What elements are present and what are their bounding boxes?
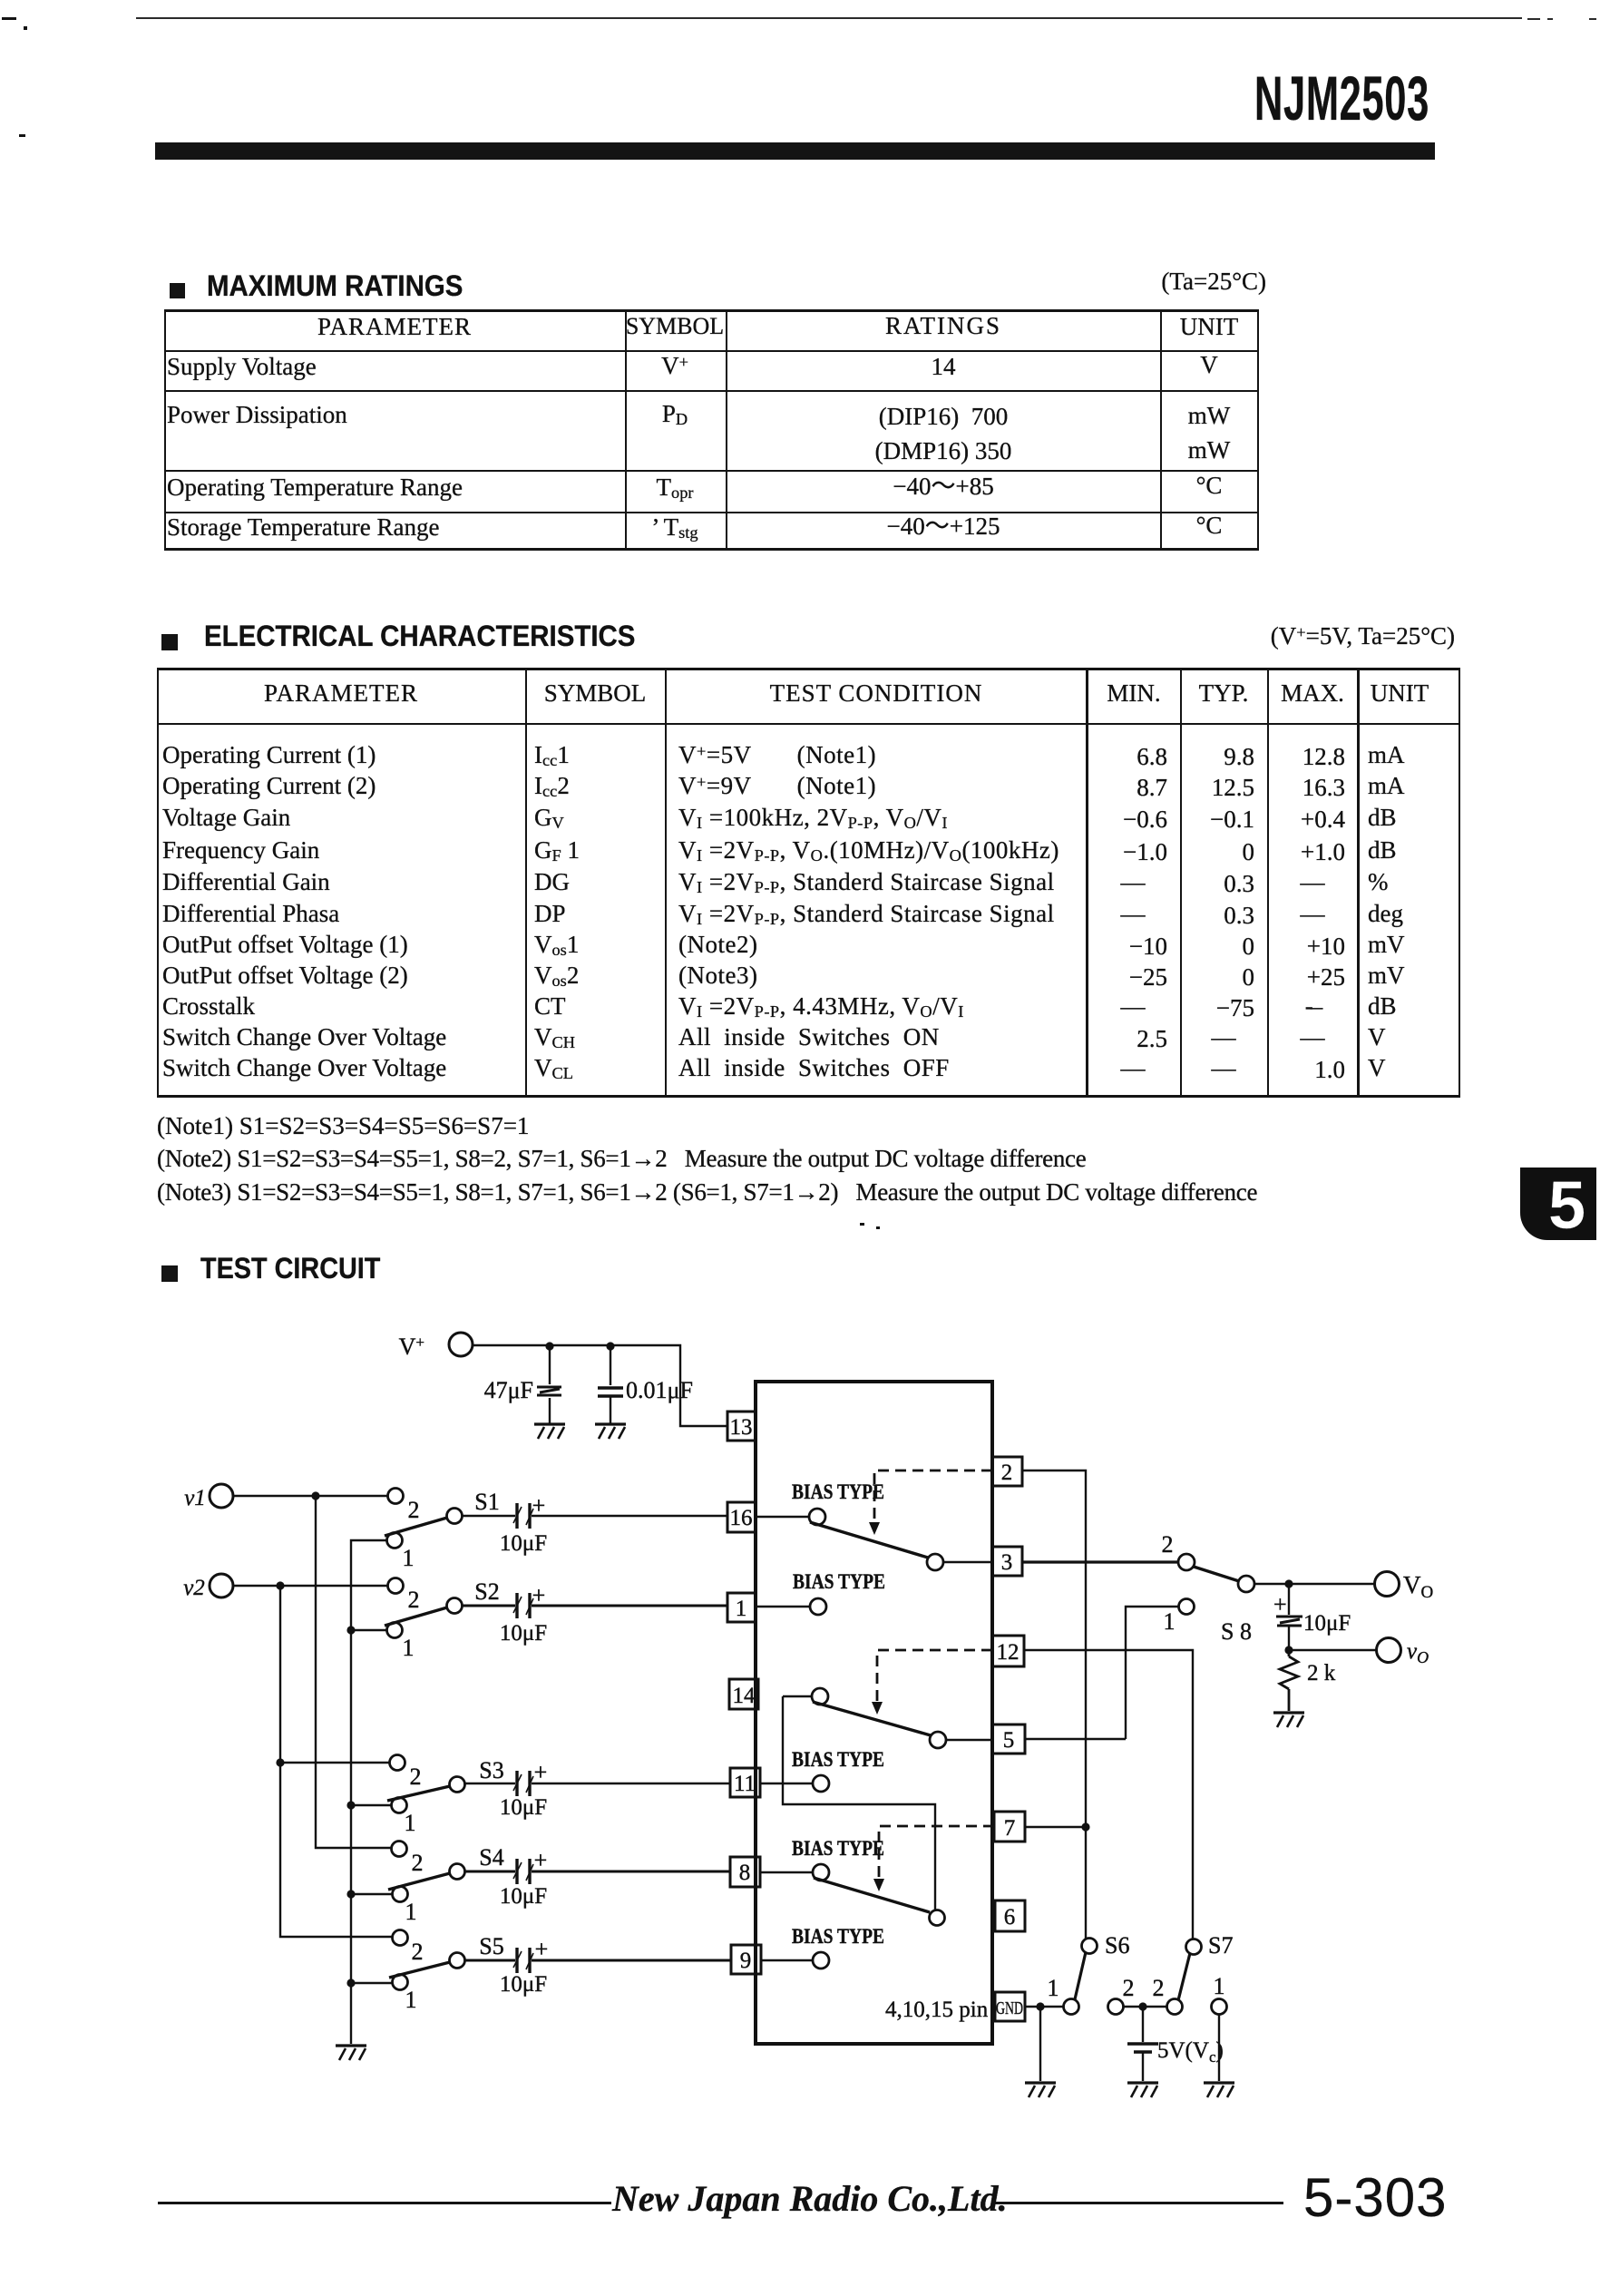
svg-text:10μF: 10μF [500,1621,547,1646]
svg-text:4,10,15 pin: 4,10,15 pin [885,1998,989,2022]
svg-text:S 8: S 8 [1221,1618,1252,1645]
svg-text:v2: v2 [183,1576,205,1600]
svg-text:1: 1 [405,1987,417,2013]
svg-text:2 k: 2 k [1307,1661,1336,1685]
svg-text:11: 11 [734,1772,756,1796]
svg-text:BIAS TYPE: BIAS TYPE [793,1570,885,1593]
svg-text:2: 2 [1162,1531,1174,1558]
svg-text:BIAS TYPE: BIAS TYPE [792,1925,884,1948]
svg-text:9: 9 [740,1949,752,1973]
svg-text:2: 2 [412,1850,424,1876]
svg-text:1: 1 [405,1899,417,1925]
svg-text:16: 16 [730,1506,753,1530]
svg-text:+: + [532,1582,546,1608]
svg-text:VO: VO [1403,1571,1433,1602]
svg-text:S3: S3 [479,1757,503,1783]
svg-text:10μF: 10μF [500,1531,547,1556]
svg-text:2: 2 [1001,1461,1013,1485]
svg-text:+: + [534,1759,548,1785]
svg-text:S4: S4 [479,1844,503,1871]
svg-text:2: 2 [412,1939,424,1965]
svg-text:6: 6 [1004,1905,1016,1930]
svg-text:V+: V+ [399,1334,424,1360]
svg-text:1: 1 [1048,1975,1059,2001]
svg-text:2: 2 [410,1764,422,1790]
svg-text:10μF: 10μF [500,1884,547,1909]
svg-text:5V(Vc): 5V(Vc) [1157,2038,1224,2066]
svg-text:2: 2 [408,1497,420,1523]
svg-text:10μF: 10μF [1303,1611,1351,1636]
svg-text:1: 1 [403,1545,415,1571]
svg-text:1: 1 [1164,1608,1176,1635]
svg-text:1: 1 [736,1597,747,1621]
svg-text:S2: S2 [474,1578,499,1605]
svg-text:+: + [1273,1591,1287,1617]
svg-text:14: 14 [733,1684,756,1708]
svg-text:GND: GND [996,1998,1023,2018]
svg-text:0.01μF: 0.01μF [626,1377,693,1403]
svg-text:BIAS TYPE: BIAS TYPE [792,1837,884,1860]
svg-text:+: + [532,1492,546,1519]
svg-text:S6: S6 [1105,1932,1129,1959]
svg-text:vO: vO [1407,1639,1429,1666]
svg-text:12: 12 [997,1640,1020,1665]
svg-text:v1: v1 [184,1486,206,1510]
svg-text:47μF: 47μF [484,1377,533,1403]
svg-text:5: 5 [1003,1728,1015,1753]
svg-text:S5: S5 [479,1933,503,1959]
svg-text:BIAS TYPE: BIAS TYPE [792,1748,884,1771]
svg-text:2: 2 [1153,1975,1165,2001]
svg-text:10μF: 10μF [500,1972,547,1997]
svg-text:+: + [534,1847,548,1873]
svg-text:BIAS TYPE: BIAS TYPE [792,1480,884,1503]
svg-text:10μF: 10μF [500,1795,547,1820]
svg-text:S1: S1 [474,1489,499,1515]
svg-text:2: 2 [408,1587,420,1613]
svg-text:8: 8 [739,1861,751,1885]
svg-text:1: 1 [1214,1973,1225,1999]
svg-text:S7: S7 [1208,1932,1233,1959]
svg-text:+: + [535,1936,549,1962]
svg-text:13: 13 [730,1415,753,1440]
svg-text:3: 3 [1001,1550,1013,1575]
svg-text:1: 1 [403,1635,415,1661]
svg-text:2: 2 [1123,1975,1135,2001]
svg-text:1: 1 [405,1810,416,1836]
svg-text:7: 7 [1004,1816,1016,1841]
